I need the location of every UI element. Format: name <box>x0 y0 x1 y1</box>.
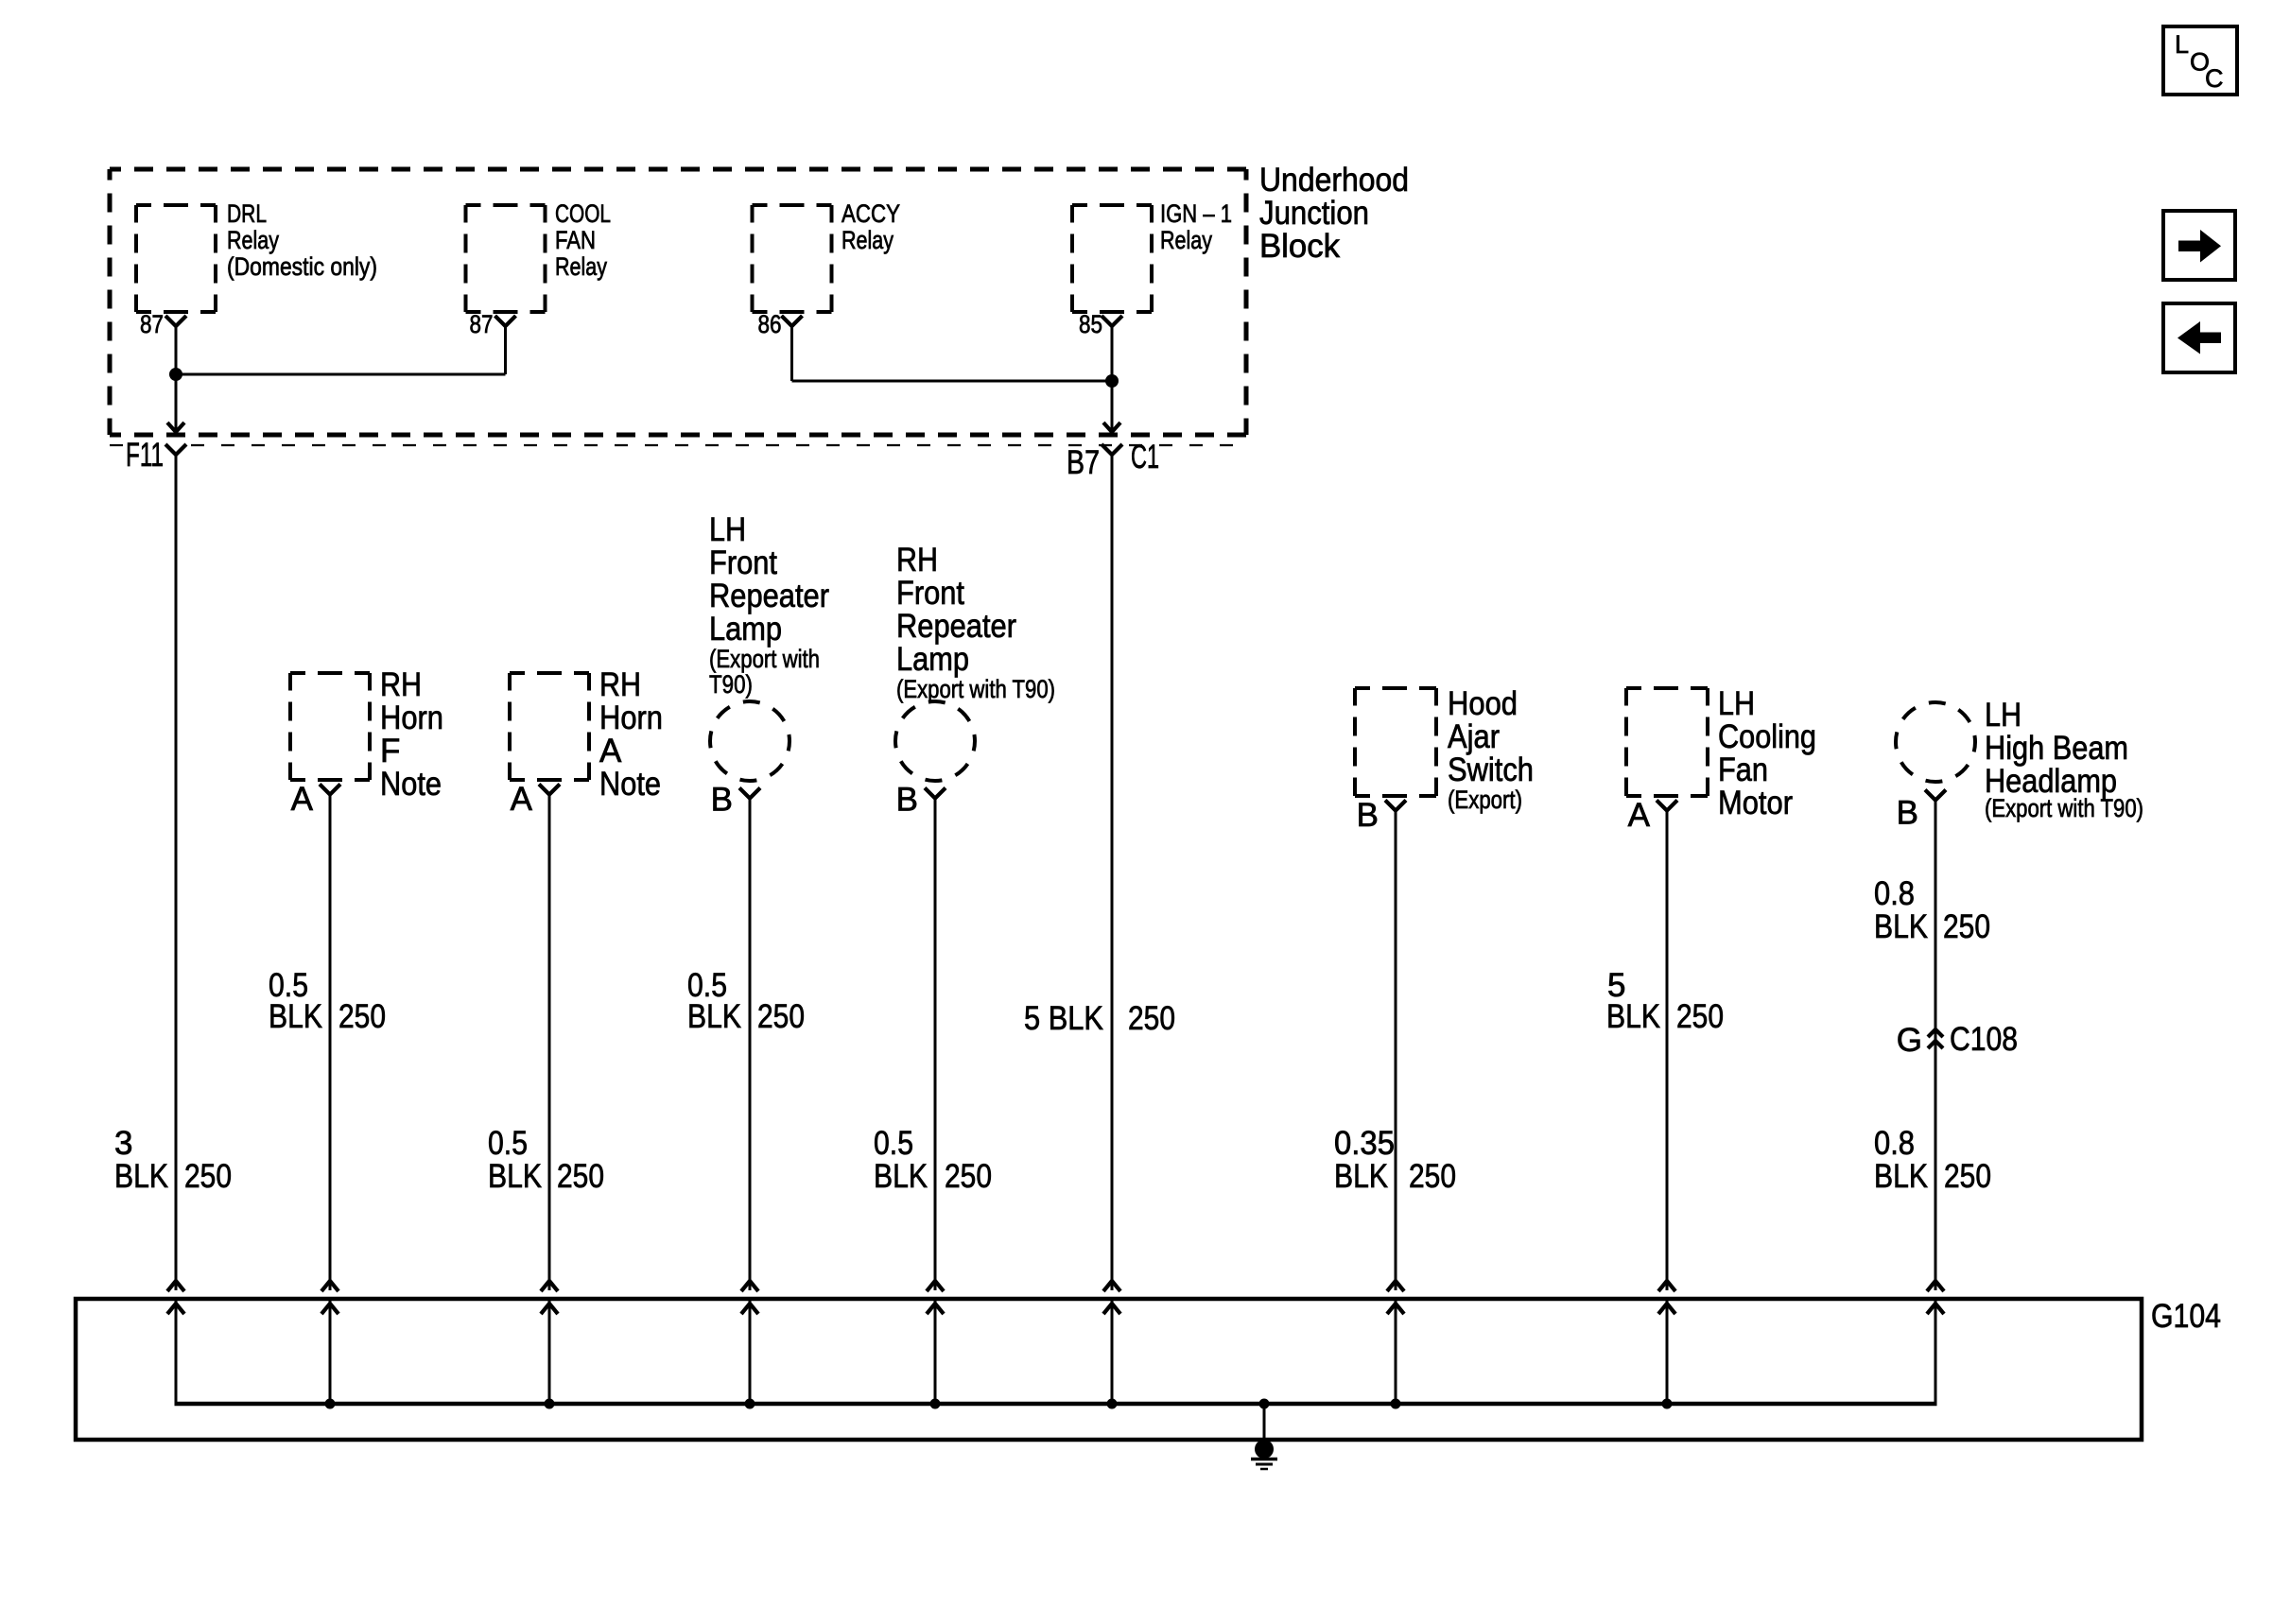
svg-text:Relay: Relay <box>1160 226 1212 254</box>
svg-text:85: 85 <box>1079 310 1102 338</box>
svg-text:BLK: BLK <box>269 998 322 1035</box>
svg-text:3: 3 <box>114 1125 132 1162</box>
svg-text:BLK: BLK <box>1334 1158 1388 1195</box>
svg-text:Lamp: Lamp <box>896 641 969 678</box>
svg-text:250: 250 <box>338 998 386 1035</box>
svg-text:COOL: COOL <box>555 199 611 228</box>
svg-text:A: A <box>511 781 533 818</box>
svg-text:86: 86 <box>758 310 782 338</box>
svg-text:Hood: Hood <box>1448 685 1518 722</box>
svg-text:A: A <box>291 781 314 818</box>
svg-text:(Export): (Export) <box>1448 786 1522 814</box>
svg-text:Repeater: Repeater <box>896 608 1016 645</box>
svg-text:ACCY: ACCY <box>842 199 900 228</box>
svg-text:F11: F11 <box>126 437 164 474</box>
svg-text:Cooling: Cooling <box>1718 718 1816 755</box>
svg-text:250: 250 <box>557 1158 604 1195</box>
svg-text:(Export with T90): (Export with T90) <box>896 675 1055 703</box>
svg-text:Front: Front <box>896 575 964 612</box>
svg-text:250: 250 <box>1943 908 1990 945</box>
svg-text:0.35: 0.35 <box>1334 1125 1395 1162</box>
svg-text:250: 250 <box>1944 1158 1991 1195</box>
svg-text:BLK: BLK <box>114 1158 168 1195</box>
svg-text:BLK: BLK <box>1606 998 1660 1035</box>
svg-text:Note: Note <box>380 766 442 803</box>
svg-text:B: B <box>711 782 733 819</box>
svg-text:0.8: 0.8 <box>1874 1125 1915 1162</box>
svg-text:Repeater: Repeater <box>709 578 829 614</box>
svg-text:Motor: Motor <box>1718 785 1793 821</box>
svg-text:High Beam: High Beam <box>1985 730 2128 767</box>
svg-text:Ajar: Ajar <box>1448 718 1500 755</box>
svg-text:C: C <box>2205 64 2224 93</box>
svg-text:LH: LH <box>709 511 746 548</box>
svg-text:250: 250 <box>1409 1158 1456 1195</box>
svg-text:DRL: DRL <box>227 199 267 228</box>
svg-text:BLK: BLK <box>1874 1158 1928 1195</box>
svg-text:0.8: 0.8 <box>1874 875 1915 912</box>
svg-text:Relay: Relay <box>842 226 894 254</box>
svg-text:Junction: Junction <box>1259 195 1369 232</box>
svg-text:BLK: BLK <box>874 1158 928 1195</box>
svg-text:RH: RH <box>896 542 938 579</box>
svg-text:BLK: BLK <box>1874 908 1928 945</box>
svg-text:Underhood: Underhood <box>1259 162 1409 199</box>
svg-text:A: A <box>599 733 622 769</box>
svg-text:G: G <box>1897 1022 1922 1059</box>
svg-text:250: 250 <box>945 1158 992 1195</box>
svg-text:(Export with T90): (Export with T90) <box>1985 794 2143 822</box>
svg-text:BLK: BLK <box>687 998 741 1035</box>
svg-text:250: 250 <box>1128 1000 1175 1037</box>
svg-text:B7: B7 <box>1067 444 1100 481</box>
svg-text:Note: Note <box>599 766 661 803</box>
svg-text:RH: RH <box>380 666 422 703</box>
svg-text:(Export with: (Export with <box>709 645 820 673</box>
svg-text:87: 87 <box>470 310 494 338</box>
svg-text:IGN – 1: IGN – 1 <box>1160 199 1232 228</box>
svg-text:Horn: Horn <box>599 700 663 736</box>
svg-text:0.5: 0.5 <box>488 1125 528 1162</box>
svg-text:250: 250 <box>184 1158 232 1195</box>
svg-text:87: 87 <box>140 310 164 338</box>
svg-text:L: L <box>2175 30 2189 59</box>
svg-text:B: B <box>1357 797 1379 834</box>
svg-text:250: 250 <box>1676 998 1724 1035</box>
svg-text:F: F <box>380 733 400 769</box>
svg-text:250: 250 <box>757 998 805 1035</box>
svg-text:Relay: Relay <box>555 252 607 281</box>
svg-text:(Domestic only): (Domestic only) <box>227 252 377 281</box>
svg-text:Relay: Relay <box>227 226 279 254</box>
svg-text:C1: C1 <box>1131 439 1159 475</box>
svg-text:Horn: Horn <box>380 700 443 736</box>
svg-text:5 BLK: 5 BLK <box>1024 1000 1103 1037</box>
svg-text:B: B <box>896 782 918 819</box>
svg-text:Switch: Switch <box>1448 752 1534 788</box>
svg-text:Block: Block <box>1259 228 1340 265</box>
svg-text:LH: LH <box>1985 697 2021 734</box>
svg-text:Front: Front <box>709 544 777 581</box>
svg-text:Lamp: Lamp <box>709 611 782 648</box>
svg-text:C108: C108 <box>1950 1021 2018 1058</box>
svg-text:FAN: FAN <box>555 226 596 254</box>
svg-text:A: A <box>1628 797 1651 834</box>
svg-text:T90): T90) <box>709 670 753 699</box>
svg-text:BLK: BLK <box>488 1158 542 1195</box>
svg-text:Fan: Fan <box>1718 752 1768 788</box>
svg-text:G104: G104 <box>2151 1298 2221 1335</box>
svg-text:LH: LH <box>1718 685 1755 722</box>
svg-text:RH: RH <box>599 666 641 703</box>
svg-text:0.5: 0.5 <box>874 1125 913 1162</box>
svg-text:B: B <box>1897 795 1918 832</box>
